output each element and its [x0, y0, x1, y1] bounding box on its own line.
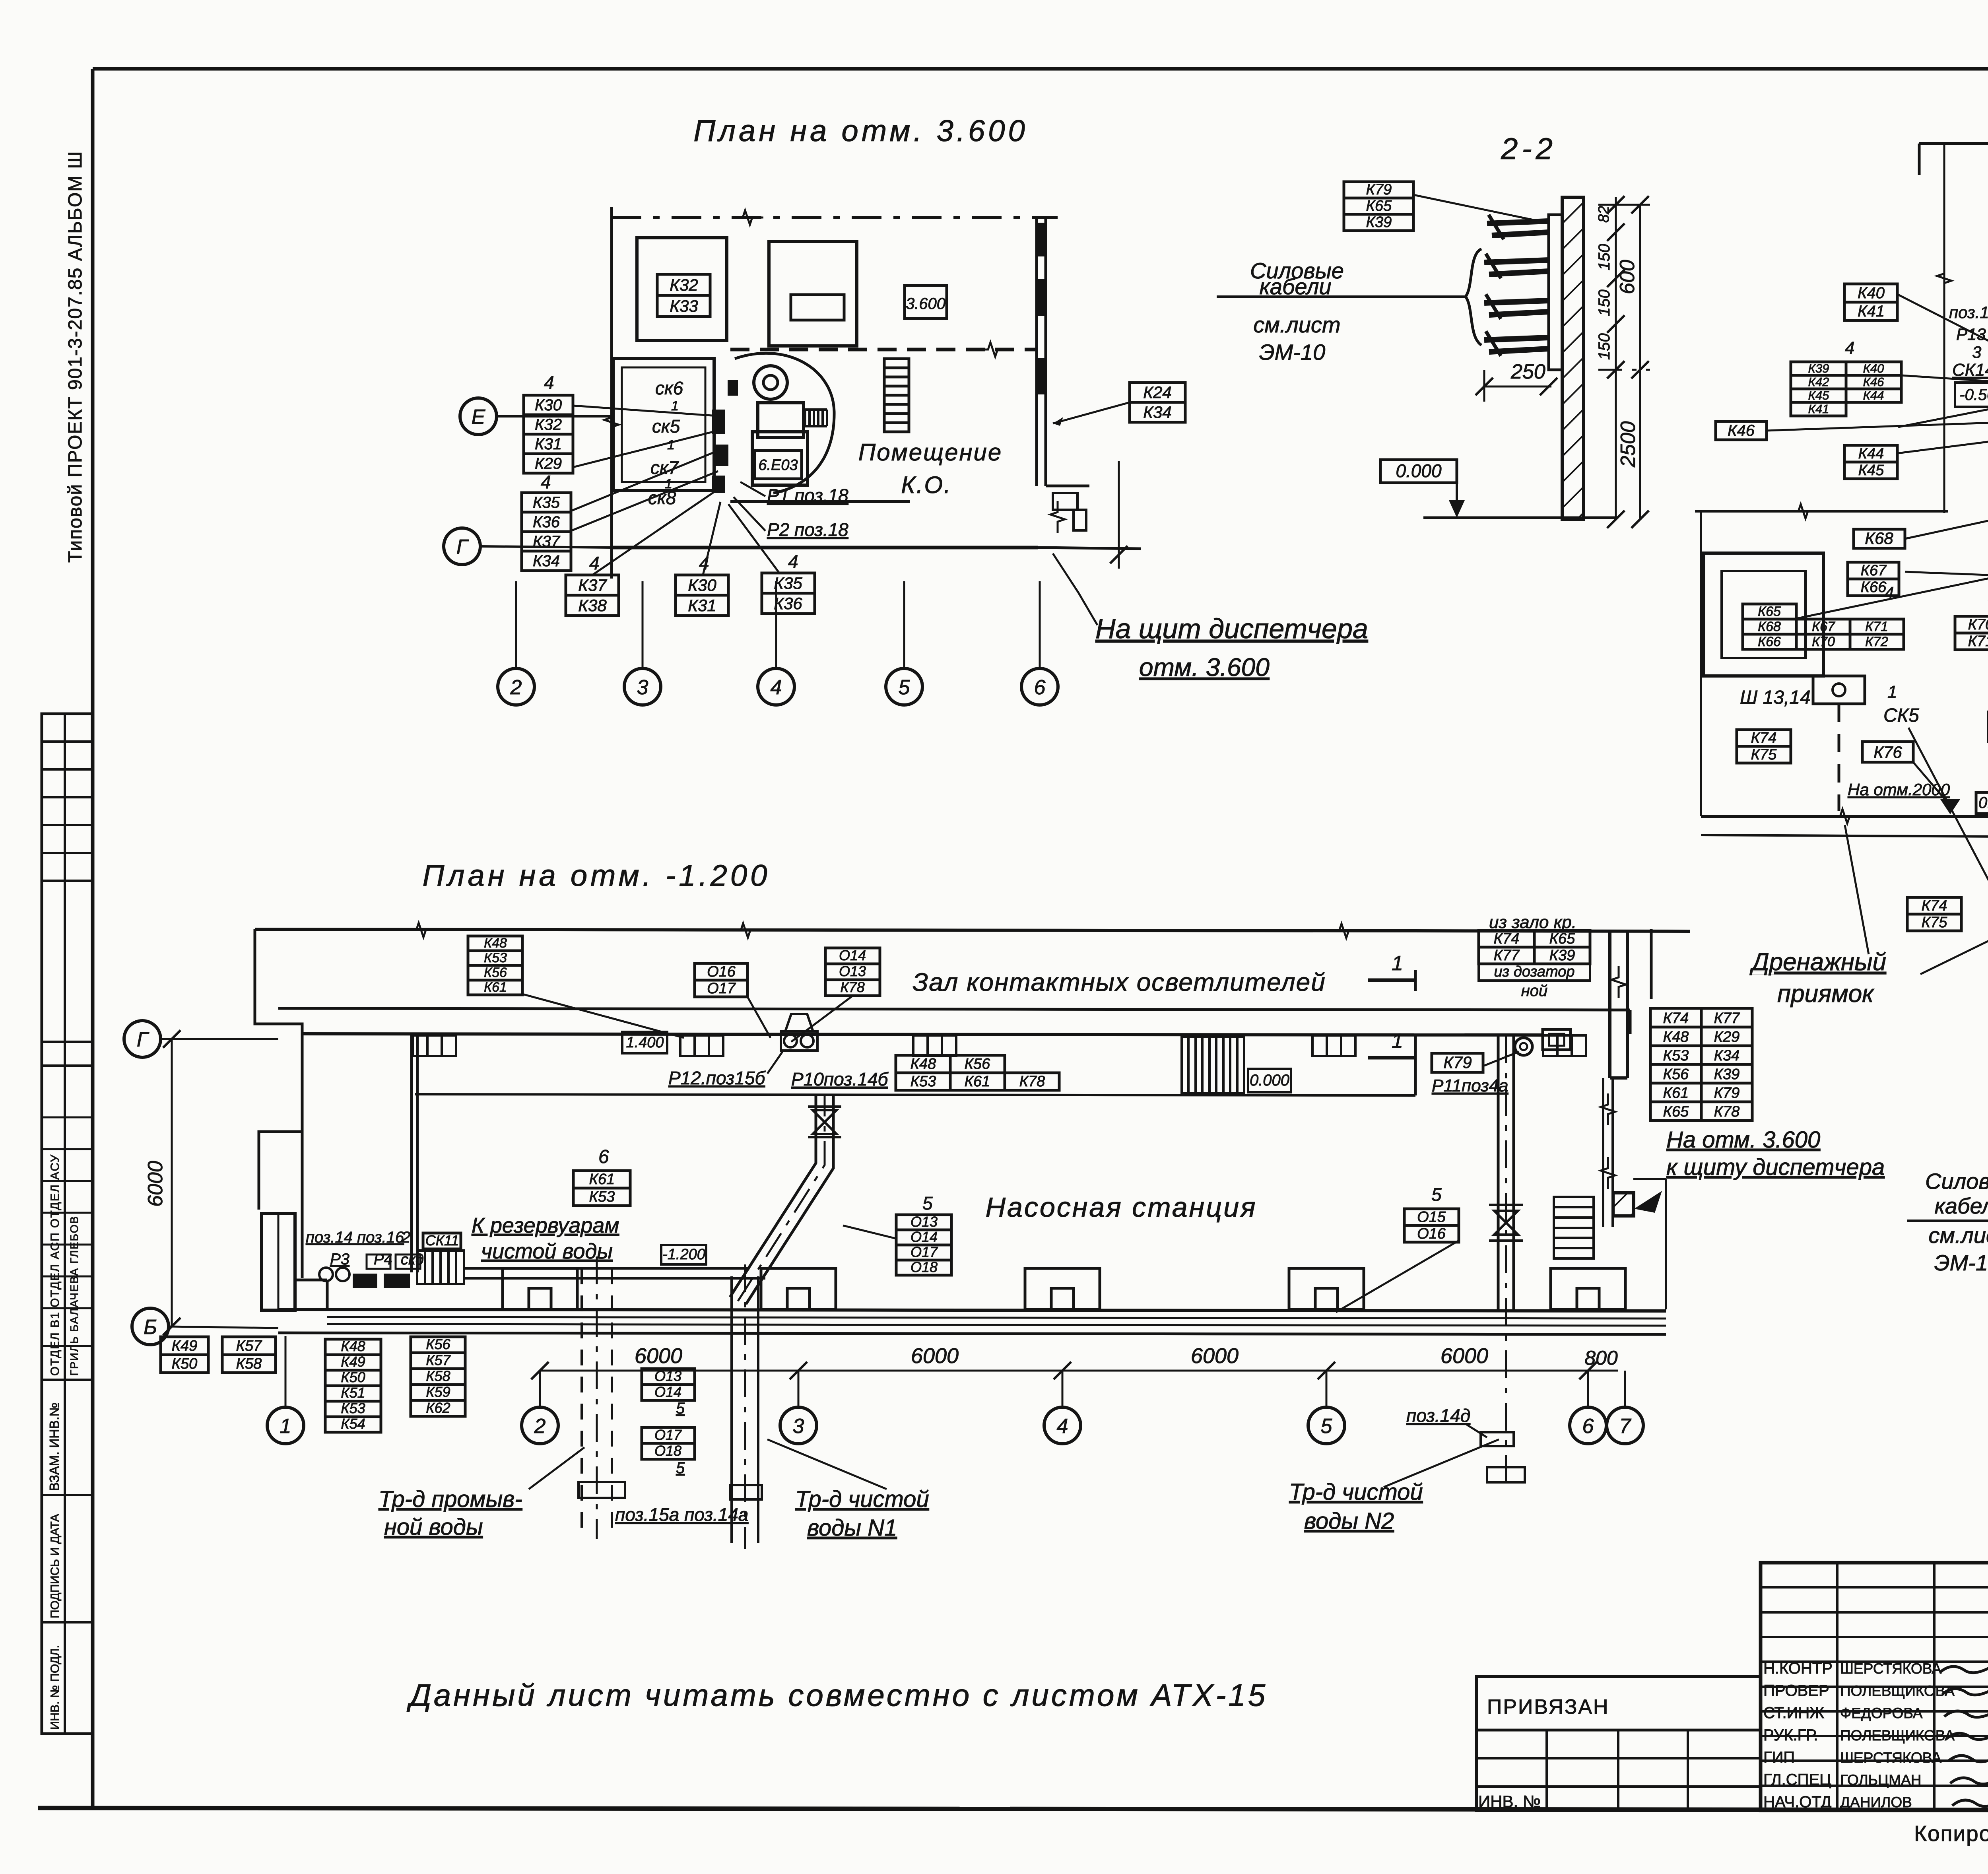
- svg-text:К56: К56: [1663, 1066, 1689, 1083]
- svg-text:К30: К30: [688, 576, 716, 594]
- svg-text:см.лист: см.лист: [1253, 312, 1340, 337]
- svg-text:К40: К40: [1863, 361, 1884, 375]
- svg-text:Насосная станция: Насосная станция: [985, 1192, 1257, 1223]
- svg-text:воды N2: воды N2: [1304, 1508, 1394, 1534]
- wall devices cluster: [712, 410, 725, 434]
- svg-text:4: 4: [1057, 1415, 1068, 1438]
- svg-text:СК11: СК11: [425, 1232, 459, 1249]
- svg-text:0.000: 0.000: [1978, 794, 1988, 812]
- label table: [1743, 619, 1904, 649]
- 1.400 mark: [622, 1032, 667, 1053]
- cable tray: [1487, 215, 1549, 239]
- svg-text:1: 1: [1887, 682, 1897, 702]
- break mark: [1601, 1093, 1615, 1125]
- svg-text:4: 4: [788, 551, 798, 572]
- svg-text:О16: О16: [707, 963, 736, 980]
- svg-text:К34: К34: [1143, 403, 1171, 421]
- svg-text:Помещение: Помещение: [858, 439, 1003, 466]
- svg-text:К58: К58: [236, 1355, 262, 1372]
- svg-text:К65: К65: [1663, 1103, 1689, 1120]
- svg-text:к щиту диспетчера: к щиту диспетчера: [1666, 1154, 1885, 1180]
- svg-text:150: 150: [1596, 289, 1613, 316]
- svg-text:Ш 13,14: Ш 13,14: [1740, 687, 1811, 708]
- leader lines: [573, 406, 712, 416]
- label box К79: [1432, 1053, 1483, 1072]
- svg-text:К68: К68: [1865, 529, 1893, 548]
- break mark: [977, 342, 1009, 357]
- label box К40/К41: [1844, 284, 1897, 320]
- grid axis 1: [267, 1407, 304, 1444]
- right dimension lines 2-2: [1615, 197, 1617, 519]
- grid axis 4: [758, 668, 794, 705]
- svg-text:К66: К66: [1861, 579, 1887, 596]
- label table: [1479, 930, 1590, 964]
- label box СК11: [423, 1232, 461, 1249]
- svg-text:К51: К51: [341, 1385, 365, 1401]
- svg-text:К34: К34: [1714, 1047, 1740, 1064]
- break mark: [1787, 504, 1819, 519]
- pilasters top: [413, 1035, 456, 1056]
- svg-text:О14: О14: [839, 947, 866, 963]
- label table: [1791, 361, 1901, 416]
- bottom wall: [278, 1309, 1666, 1311]
- svg-text:К46: К46: [1728, 422, 1755, 439]
- svg-text:О13: О13: [911, 1214, 938, 1230]
- svg-text:приямок: приямок: [1777, 980, 1875, 1008]
- svg-text:ПОДПИСЬ И ДАТА: ПОДПИСЬ И ДАТА: [49, 1514, 62, 1618]
- svg-text:Данный лист читать совместн: Данный лист читать совместно с листом АТ…: [406, 1678, 1268, 1713]
- label box К74/К75: [1907, 897, 1961, 931]
- svg-text:К39: К39: [1714, 1066, 1740, 1083]
- svg-text:К24: К24: [1143, 383, 1171, 402]
- break mark: [732, 210, 763, 225]
- svg-text:О13: О13: [839, 963, 866, 979]
- svg-text:К77: К77: [1494, 947, 1520, 964]
- svg-text:5: 5: [676, 1459, 685, 1477]
- label box К30/К31: [676, 575, 728, 616]
- label box К24/К34: [1130, 383, 1185, 422]
- svg-text:К44: К44: [1858, 445, 1884, 462]
- svg-text:РУК.ГР.: РУК.ГР.: [1763, 1726, 1818, 1744]
- svg-text:чистой воды: чистой воды: [481, 1239, 613, 1263]
- break mark: [1829, 809, 1861, 823]
- svg-text:6000: 6000: [635, 1344, 682, 1368]
- svg-text:см.лист: см.лист: [1928, 1223, 1988, 1248]
- svg-text:К78: К78: [840, 979, 864, 995]
- svg-text:На отм. 3.600: На отм. 3.600: [1666, 1127, 1820, 1153]
- device P12/P10: [781, 1031, 817, 1051]
- svg-text:1: 1: [1392, 1029, 1403, 1053]
- hatched wall: [1613, 1193, 1634, 1216]
- dashed wall: [730, 348, 1038, 351]
- svg-text:О17: О17: [654, 1427, 682, 1443]
- svg-text:ной воды: ной воды: [384, 1514, 483, 1540]
- svg-text:5: 5: [676, 1400, 685, 1417]
- equipment blob outline: [735, 353, 834, 493]
- svg-text:2500: 2500: [1617, 421, 1640, 468]
- label box К30/К32/К31/К29: [524, 395, 573, 473]
- svg-text:К46: К46: [1863, 375, 1885, 389]
- break mark: [1937, 262, 1951, 294]
- svg-text:1: 1: [1392, 952, 1403, 975]
- svg-text:К61: К61: [1663, 1085, 1689, 1101]
- title block left attach table: [1477, 1676, 1761, 1810]
- break mark: [1328, 924, 1360, 938]
- svg-text:-0.500: -0.500: [1959, 386, 1988, 404]
- chain line top wall axis: [612, 216, 1058, 219]
- label box К35/К36: [762, 573, 815, 614]
- svg-text:На отм.2000: На отм.2000: [1848, 780, 1950, 799]
- svg-text:6: 6: [1582, 1415, 1594, 1438]
- svg-text:К39: К39: [1549, 947, 1575, 964]
- inner top walls: [278, 1008, 1630, 1010]
- svg-text:2: 2: [510, 676, 522, 699]
- break mark: [1601, 1157, 1615, 1189]
- label box О13/О14/О17/О18: [896, 1214, 951, 1275]
- label box К57/К58: [222, 1337, 276, 1373]
- diagonal pipe: [730, 1095, 833, 1304]
- svg-text:К61: К61: [965, 1073, 990, 1090]
- svg-text:План на отм. -1.200: План на отм. -1.200: [423, 859, 771, 893]
- svg-text:К53: К53: [484, 950, 507, 965]
- svg-text:К53: К53: [589, 1188, 615, 1205]
- svg-text:К74: К74: [1494, 930, 1520, 947]
- svg-text:К34: К34: [533, 552, 560, 570]
- right appendix: [1046, 485, 1089, 487]
- svg-text:СК14: СК14: [1952, 360, 1988, 380]
- svg-text:6.Е03: 6.Е03: [758, 457, 798, 474]
- svg-text:К резервуарам: К резервуарам: [472, 1214, 619, 1237]
- label box К67/К66: [1848, 562, 1899, 596]
- svg-text:К79: К79: [1714, 1085, 1740, 1101]
- svg-text:К67: К67: [1812, 619, 1835, 634]
- label box К79/К65/К39: [1344, 181, 1413, 231]
- svg-text:О14: О14: [654, 1384, 681, 1400]
- svg-text:1: 1: [667, 437, 675, 452]
- svg-text:Н.КОНТР: Н.КОНТР: [1763, 1660, 1833, 1677]
- horizontal pipe run: [464, 1267, 749, 1270]
- svg-text:Дренажный: Дренажный: [1749, 948, 1886, 976]
- right vertical pipe: [1497, 1035, 1500, 1309]
- svg-text:К75: К75: [1751, 746, 1777, 763]
- svg-text:7: 7: [1619, 1415, 1632, 1438]
- left extension line: [1943, 144, 1945, 513]
- break mark: [1050, 501, 1065, 533]
- grid axis 5: [1308, 1407, 1345, 1444]
- label box К32/К33: [657, 274, 710, 317]
- hatched wall: [1562, 197, 1584, 519]
- svg-text:К59: К59: [426, 1384, 450, 1400]
- svg-text:К77: К77: [1714, 1010, 1741, 1027]
- svg-text:ПОЛЕВЩИКОВА: ПОЛЕВЩИКОВА: [1840, 1727, 1955, 1744]
- left outer room: [1695, 510, 1948, 513]
- svg-text:ДАНИЛОВ: ДАНИЛОВ: [1840, 1794, 1912, 1810]
- left outline: [255, 929, 302, 1210]
- svg-text:600: 600: [1616, 260, 1639, 294]
- svg-text:ФЕДОРОВА: ФЕДОРОВА: [1840, 1705, 1923, 1721]
- svg-text:На щит диспетчера: На щит диспетчера: [1095, 613, 1368, 644]
- svg-text:Р1 поз.18: Р1 поз.18: [767, 485, 848, 506]
- svg-text:5: 5: [899, 676, 911, 699]
- svg-text:поз.15а поз.14а: поз.15а поз.14а: [615, 1504, 748, 1525]
- -1.200 mark: [661, 1245, 706, 1264]
- svg-text:6000: 6000: [1191, 1344, 1239, 1368]
- svg-text:К50: К50: [341, 1369, 365, 1385]
- grid axis 6: [1021, 668, 1058, 705]
- svg-text:К44: К44: [1863, 388, 1884, 402]
- 0.000 mark: [1248, 1069, 1291, 1092]
- break mark: [1611, 966, 1626, 998]
- svg-text:О17: О17: [911, 1244, 938, 1260]
- label box К68: [1854, 529, 1905, 548]
- elevation mark 3.600: [905, 285, 947, 318]
- svg-text:Тр-д чистой: Тр-д чистой: [1289, 1479, 1423, 1505]
- svg-text:отм. 3.600: отм. 3.600: [1139, 653, 1270, 682]
- svg-text:К53: К53: [1663, 1047, 1689, 1064]
- stairs: [417, 1251, 464, 1284]
- sheet frame: [93, 67, 1988, 71]
- svg-text:5: 5: [1431, 1184, 1442, 1205]
- svg-text:К68: К68: [1758, 619, 1781, 634]
- label box К35/К36/К37/К34: [522, 493, 571, 571]
- svg-text:К31: К31: [688, 596, 716, 615]
- svg-text:К37: К37: [533, 533, 561, 550]
- svg-text:Б: Б: [144, 1316, 157, 1339]
- svg-text:К58: К58: [426, 1368, 450, 1384]
- svg-text:Е: Е: [472, 406, 486, 429]
- svg-text:К56: К56: [426, 1336, 450, 1352]
- svg-text:150: 150: [1596, 333, 1613, 360]
- svg-text:О18: О18: [654, 1443, 681, 1459]
- brace: [1466, 249, 1481, 345]
- svg-text:К36: К36: [774, 594, 802, 613]
- grid line axis 2 vertical: [610, 207, 613, 579]
- label box К48/К53/К56/К61: [468, 936, 522, 995]
- svg-text:ГЛ.СПЕЦ: ГЛ.СПЕЦ: [1763, 1771, 1831, 1789]
- svg-text:К38: К38: [578, 596, 607, 615]
- svg-text:К67: К67: [1861, 562, 1887, 579]
- svg-text:5: 5: [1321, 1415, 1333, 1438]
- svg-text:К56: К56: [484, 965, 507, 980]
- svg-text:3: 3: [793, 1415, 804, 1438]
- svg-text:О14: О14: [911, 1229, 938, 1245]
- label box К65: [1743, 604, 1796, 619]
- svg-text:3: 3: [1972, 343, 1981, 361]
- right wall of building: [1608, 931, 1611, 1078]
- svg-text:6: 6: [598, 1146, 609, 1167]
- dim line bottom: [540, 1370, 1618, 1372]
- pump unit: [754, 366, 787, 399]
- grid axis 6: [1570, 1407, 1606, 1444]
- left stamp column: [42, 714, 93, 1734]
- svg-text:К79: К79: [1443, 1053, 1472, 1072]
- svg-text:82: 82: [1596, 206, 1612, 223]
- svg-text:К74: К74: [1922, 897, 1947, 914]
- svg-text:К53: К53: [911, 1073, 936, 1090]
- grid axis 3: [780, 1407, 817, 1444]
- svg-text:План на отм. 3.600: План на отм. 3.600: [693, 114, 1028, 148]
- svg-text:Силовые: Силовые: [1925, 1169, 1988, 1194]
- leader fan -0.500: [1897, 294, 1988, 360]
- room upper-middle: [769, 241, 857, 346]
- svg-text:К48: К48: [484, 936, 507, 951]
- svg-text:ОТДЕЛ В1 ОТДЕЛ АСП ОТДЕЛ АСУ: ОТДЕЛ В1 ОТДЕЛ АСП ОТДЕЛ АСУ: [49, 1154, 62, 1376]
- svg-text:ск5: ск5: [652, 416, 680, 437]
- bottom walls: [613, 546, 1038, 550]
- svg-text:К41: К41: [1808, 402, 1829, 416]
- svg-text:ск6: ск6: [655, 378, 683, 398]
- svg-text:К74: К74: [1663, 1010, 1689, 1027]
- label box О14/О13/К78: [825, 947, 880, 996]
- svg-text:К72: К72: [1865, 634, 1888, 649]
- svg-text:К35: К35: [774, 574, 802, 592]
- stairs: [1182, 1037, 1244, 1093]
- stairs: [1554, 1197, 1594, 1258]
- svg-text:6: 6: [1034, 676, 1046, 699]
- label box К48/К49/К50/К51/К53/К54: [325, 1338, 381, 1432]
- svg-text:К78: К78: [1714, 1103, 1740, 1120]
- label box О15/О16: [1404, 1209, 1459, 1242]
- svg-text:К49: К49: [341, 1354, 365, 1370]
- valve: [1494, 1211, 1518, 1235]
- svg-text:К45: К45: [1858, 462, 1885, 479]
- svg-text:ЭМ-18: ЭМ-18: [1934, 1250, 1988, 1275]
- svg-text:К71: К71: [1968, 633, 1988, 650]
- svg-text:ПОЛЕВЩИКОВА: ПОЛЕВЩИКОВА: [1840, 1683, 1955, 1699]
- break mark: [604, 406, 619, 438]
- cable tray: [1484, 331, 1549, 356]
- svg-text:Копировал: Каршунова: Копировал: Каршунова: [1914, 1821, 1988, 1846]
- svg-text:из дозатор: из дозатор: [1494, 963, 1575, 980]
- svg-text:поз.18: поз.18: [1949, 303, 1988, 322]
- label box К76: [1862, 742, 1913, 762]
- svg-text:К61: К61: [589, 1171, 615, 1188]
- top outer wall: [255, 929, 1690, 931]
- svg-text:К48: К48: [1663, 1029, 1689, 1045]
- svg-text:К42: К42: [1808, 375, 1829, 389]
- svg-text:К65: К65: [1366, 198, 1392, 214]
- svg-text:ШЕРСТЯКОВА: ШЕРСТЯКОВА: [1840, 1750, 1941, 1766]
- svg-text:5: 5: [922, 1193, 933, 1214]
- svg-text:6000: 6000: [144, 1161, 167, 1207]
- svg-text:Р2 поз.18: Р2 поз.18: [767, 519, 848, 540]
- svg-text:3.600: 3.600: [906, 295, 945, 313]
- svg-text:2: 2: [401, 1229, 410, 1246]
- svg-text:О15: О15: [1417, 1209, 1446, 1225]
- cable tray: [1484, 254, 1549, 278]
- label box О17/О18: [642, 1427, 695, 1459]
- svg-text:К29: К29: [535, 455, 562, 472]
- svg-text:К75: К75: [1922, 914, 1948, 931]
- svg-text:К41: К41: [1858, 303, 1885, 320]
- svg-text:К78: К78: [1019, 1073, 1045, 1090]
- svg-text:К36: К36: [533, 513, 560, 531]
- grid axis 3: [624, 668, 661, 705]
- svg-text:6000: 6000: [1441, 1344, 1488, 1368]
- svg-text:К76: К76: [1873, 743, 1902, 761]
- svg-text:кабели: кабели: [1259, 274, 1331, 299]
- svg-text:ГРИЛЬ БАЛАЧЕВА ГЛЕБОВ: ГРИЛЬ БАЛАЧЕВА ГЛЕБОВ: [68, 1216, 80, 1376]
- svg-text:К.О.: К.О.: [901, 472, 951, 498]
- wall plate: [1549, 215, 1562, 370]
- svg-text:ГОЛЬЦМАН: ГОЛЬЦМАН: [1840, 1772, 1921, 1788]
- grid axis Е: [460, 398, 497, 435]
- grid axis Г: [444, 528, 480, 565]
- ground line 2-2: [1423, 517, 1616, 519]
- svg-text:К39: К39: [1808, 361, 1829, 375]
- room CK left double wall: [613, 359, 714, 491]
- svg-text:К45: К45: [1808, 388, 1830, 402]
- grid axis 2: [498, 668, 534, 705]
- bottom wall: [1701, 815, 1988, 818]
- svg-text:К61: К61: [484, 980, 507, 995]
- break mark: [730, 923, 761, 938]
- label box К74/К75: [1737, 730, 1791, 763]
- break mark: [405, 923, 437, 937]
- svg-text:К65: К65: [1758, 604, 1781, 619]
- svg-text:0.000: 0.000: [1396, 460, 1442, 481]
- svg-text:К66: К66: [1758, 634, 1781, 649]
- svg-text:К32: К32: [535, 416, 562, 433]
- label box К44/К45: [1844, 445, 1897, 479]
- svg-text:К65: К65: [1549, 930, 1576, 947]
- label box О16/О17: [695, 963, 747, 997]
- title block: [1761, 1563, 1988, 1810]
- valve: [813, 1110, 837, 1134]
- elevation 0.000: [1380, 460, 1457, 483]
- label box К61/К53: [573, 1171, 630, 1206]
- grid axis Б: [132, 1308, 169, 1345]
- svg-text:150: 150: [1596, 244, 1613, 270]
- top wall: [1919, 142, 1988, 145]
- label box К70/К71: [1955, 616, 1988, 650]
- svg-text:1: 1: [280, 1415, 291, 1438]
- svg-text:2-2: 2-2: [1501, 132, 1557, 166]
- svg-text:воды N1: воды N1: [807, 1515, 897, 1541]
- label box К78: [1005, 1073, 1059, 1090]
- label box К49/К50: [161, 1337, 208, 1373]
- grid axis 7: [1607, 1407, 1643, 1444]
- svg-text:поз.14д: поз.14д: [1406, 1405, 1470, 1426]
- svg-text:800: 800: [1584, 1347, 1618, 1369]
- svg-text:Г: Г: [456, 536, 469, 559]
- svg-text:К57: К57: [426, 1352, 451, 1368]
- label box О13/О14: [642, 1368, 695, 1400]
- label box К37/К38: [566, 575, 619, 616]
- svg-text:250: 250: [1510, 360, 1545, 383]
- label table: [896, 1055, 1005, 1090]
- svg-text:ИНВ. № ПОДЛ.: ИНВ. № ПОДЛ.: [49, 1645, 62, 1730]
- svg-text:К30: К30: [535, 396, 562, 414]
- svg-text:Р10поз.14б: Р10поз.14б: [791, 1069, 889, 1089]
- svg-text:Зал контактных осветлителей: Зал контактных осветлителей: [912, 968, 1326, 996]
- svg-text:К35: К35: [533, 494, 560, 511]
- grid axis Г: [124, 1021, 161, 1057]
- corridor partitions: [410, 1035, 413, 1272]
- room upper-left: [637, 238, 727, 340]
- svg-text:СТ.ИНЖ: СТ.ИНЖ: [1763, 1704, 1824, 1722]
- right wall double: [1035, 218, 1038, 486]
- left annex: [262, 1214, 295, 1310]
- grid axis 2: [522, 1407, 558, 1444]
- svg-text:О17: О17: [707, 980, 736, 997]
- svg-text:К50: К50: [172, 1355, 198, 1372]
- svg-text:К37: К37: [578, 576, 607, 594]
- svg-text:2: 2: [534, 1415, 546, 1438]
- svg-text:К53: К53: [341, 1400, 365, 1416]
- svg-text:ГИП: ГИП: [1763, 1749, 1795, 1766]
- svg-text:ИНВ. №: ИНВ. №: [1478, 1792, 1541, 1811]
